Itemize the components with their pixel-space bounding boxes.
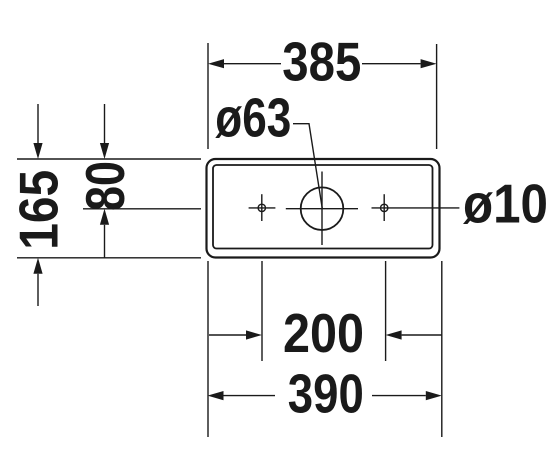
left fixing hole vertical centerline	[261, 194, 263, 221]
svg-text:ø63: ø63	[215, 87, 291, 149]
flush hole horizontal centerline	[286, 208, 358, 210]
svg-text:200: 200	[283, 302, 364, 364]
tank outer outline	[207, 159, 440, 258]
flush hole circle (ø63)	[301, 187, 344, 230]
bottom extension line 200 left	[261, 261, 263, 361]
bottom extension line 390 left	[207, 261, 209, 437]
bottom extension line 390 right	[441, 261, 443, 437]
dimension 385 line left segment with arrow	[208, 59, 281, 68]
left fixing hole (ø10)	[258, 204, 265, 211]
svg-text:385: 385	[282, 31, 361, 93]
dimension 80 bottom arrow	[100, 209, 109, 258]
left middle extension line (hole center level)	[83, 208, 201, 210]
dimension 385 right extension line	[436, 44, 438, 149]
svg-text:165: 165	[8, 170, 70, 250]
leader line to ø10 label	[372, 207, 460, 209]
dimension 80 top arrow	[100, 104, 109, 159]
dimension 165 bottom arrow	[33, 258, 42, 306]
right fixing hole vertical centerline	[383, 194, 385, 221]
svg-text:ø10: ø10	[463, 173, 548, 235]
left bottom extension line (tank bottom level)	[17, 257, 201, 259]
svg-text:80: 80	[74, 161, 136, 211]
dimension 200 right arrow	[386, 330, 442, 339]
dimension 390 right segment with arrow	[372, 391, 442, 400]
leader line from ø63 label to flush hole	[293, 124, 322, 209]
dimension 385 left extension line	[207, 43, 209, 149]
left fixing hole horizontal centerline	[249, 207, 276, 209]
svg-text:390: 390	[288, 363, 364, 425]
left top extension line (tank top level)	[17, 158, 201, 160]
flush hole vertical centerline	[321, 172, 323, 246]
bottom extension line 200 right	[385, 261, 387, 361]
dimension 390 left segment with arrow	[208, 391, 276, 400]
right fixing hole (ø10)	[381, 204, 388, 211]
dimension 385 line right segment with arrow	[362, 59, 437, 68]
dimension 165 top arrow	[33, 104, 42, 159]
tank inner outline	[213, 165, 433, 249]
dimension 200 left arrow	[209, 330, 262, 339]
